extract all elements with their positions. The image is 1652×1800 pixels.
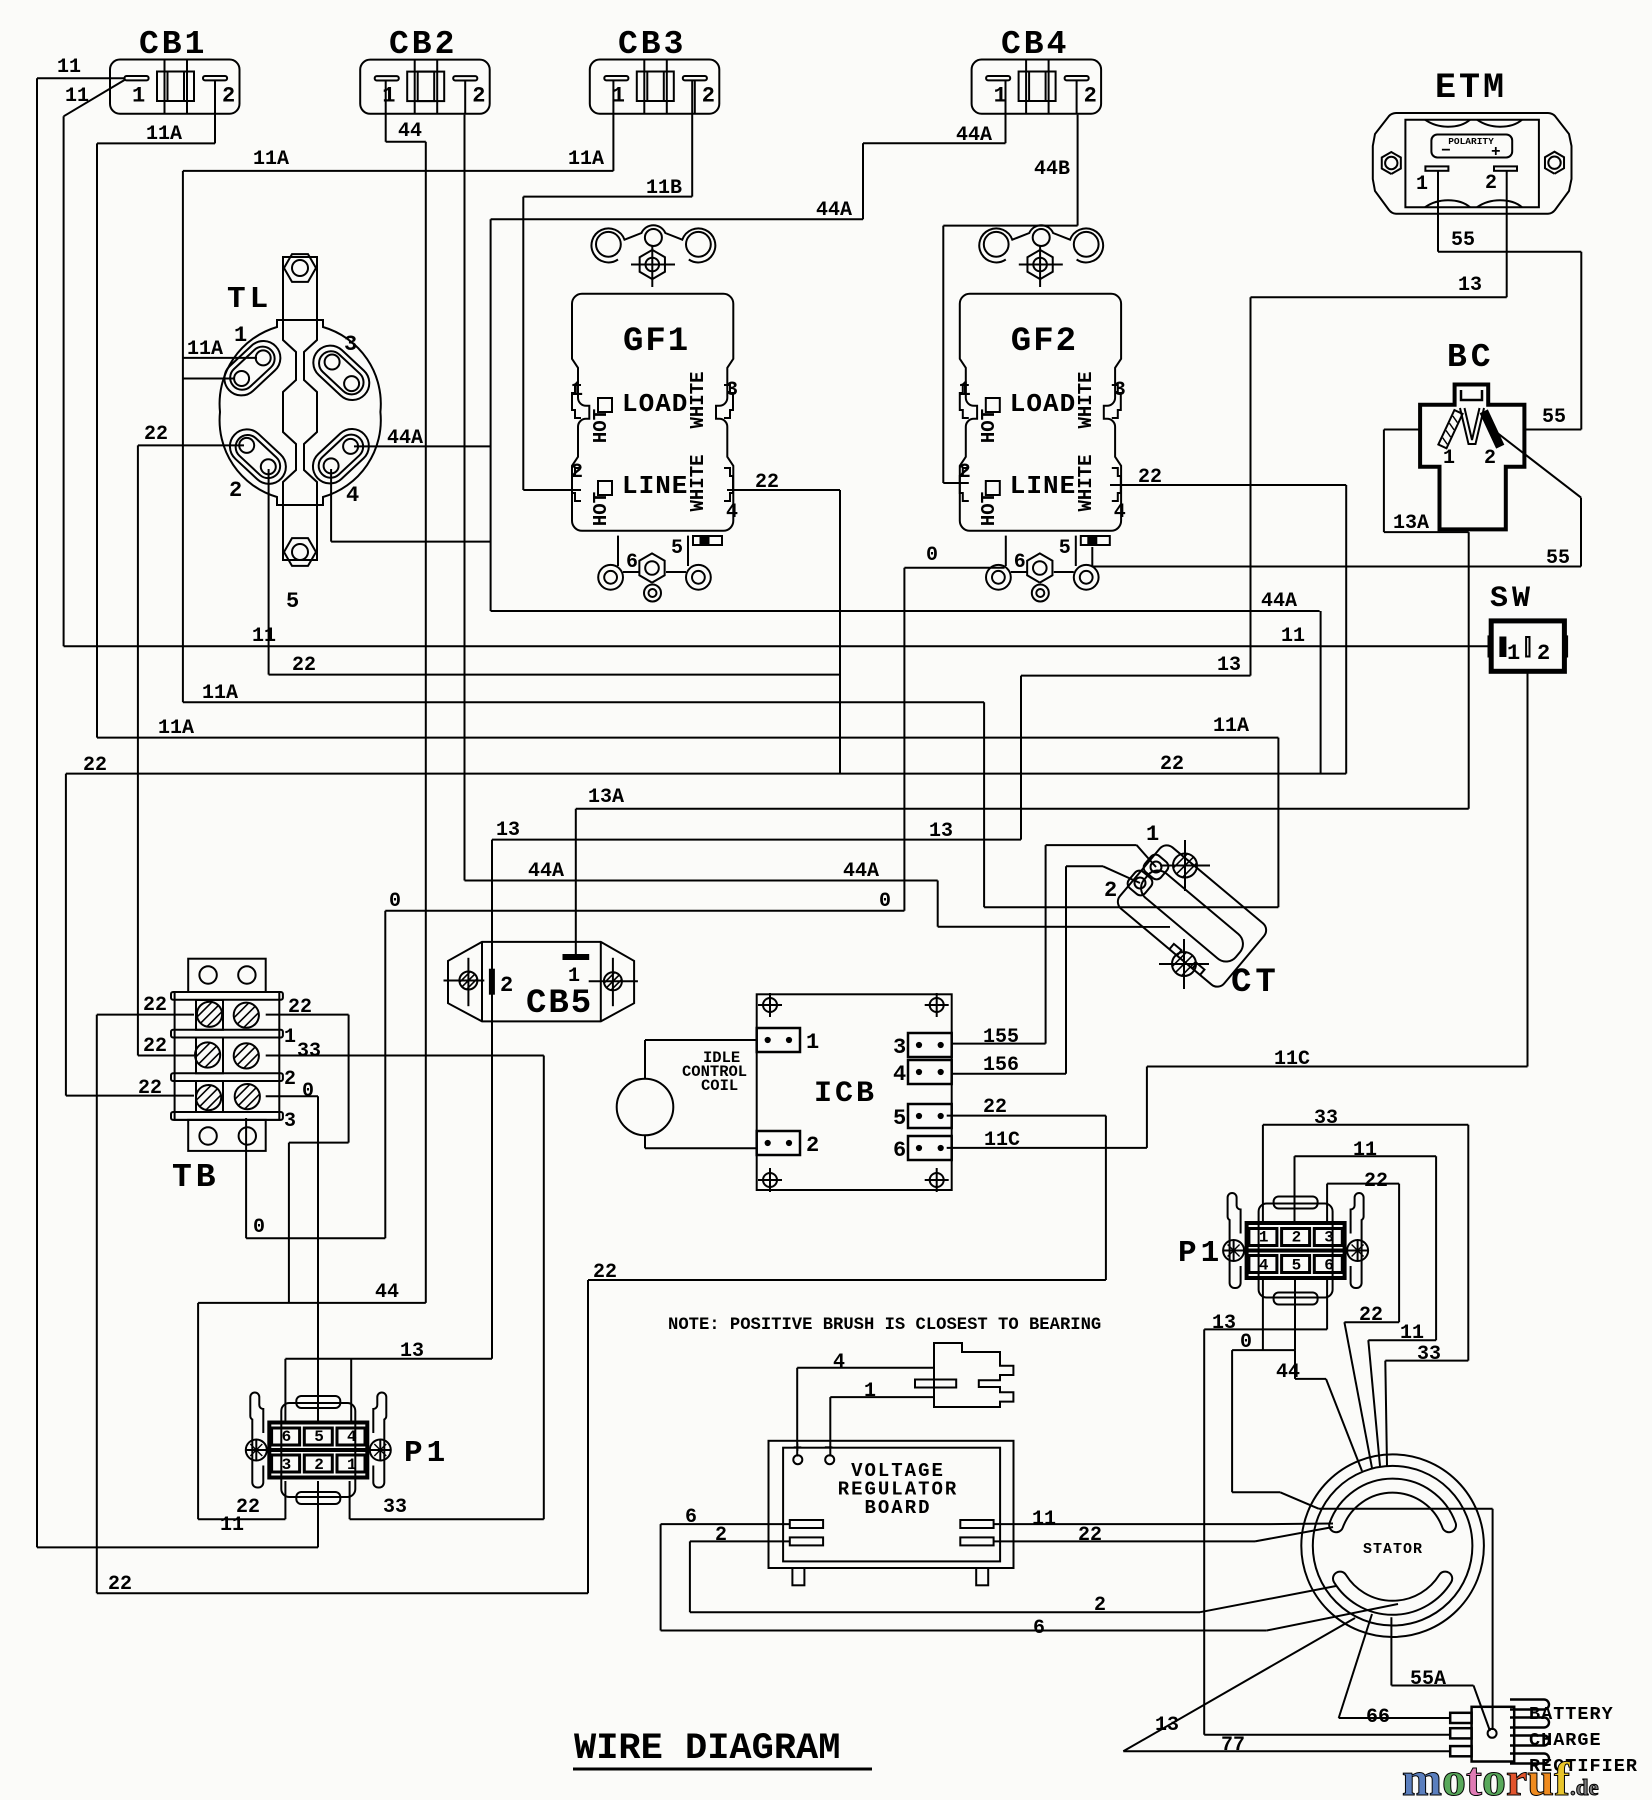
- svg-text:POLARITY: POLARITY: [1448, 136, 1494, 147]
- svg-text:2: 2: [472, 84, 485, 109]
- svg-text:WHITE: WHITE: [1075, 371, 1097, 428]
- svg-text:11C: 11C: [984, 1129, 1020, 1152]
- svg-text:13: 13: [1155, 1714, 1179, 1737]
- svg-text:22: 22: [144, 423, 168, 446]
- svg-text:CB1: CB1: [139, 26, 207, 63]
- svg-text:2: 2: [229, 478, 242, 503]
- svg-text:5: 5: [314, 1428, 324, 1446]
- svg-text:1: 1: [612, 84, 625, 109]
- svg-text:1: 1: [864, 1380, 876, 1403]
- svg-text:155: 155: [983, 1026, 1019, 1049]
- svg-text:11A: 11A: [187, 338, 223, 361]
- svg-text:44: 44: [398, 120, 422, 143]
- svg-text:13: 13: [1458, 274, 1482, 297]
- svg-text:13A: 13A: [588, 786, 624, 809]
- svg-text:11A: 11A: [146, 123, 182, 146]
- svg-text:2: 2: [571, 461, 583, 484]
- svg-text:4: 4: [346, 483, 359, 508]
- svg-text:2: 2: [702, 84, 715, 109]
- svg-text:2: 2: [1537, 641, 1550, 666]
- svg-text:22: 22: [138, 1077, 162, 1100]
- svg-text:0: 0: [389, 890, 401, 913]
- svg-text:1: 1: [382, 84, 395, 109]
- svg-text:11C: 11C: [1274, 1048, 1310, 1071]
- svg-text:STATOR: STATOR: [1363, 1541, 1423, 1558]
- svg-text:4: 4: [1114, 501, 1126, 524]
- svg-text:4: 4: [1259, 1257, 1269, 1275]
- svg-text:13A: 13A: [1393, 512, 1429, 535]
- svg-text:6: 6: [282, 1428, 292, 1446]
- svg-text:22: 22: [983, 1096, 1007, 1119]
- svg-text:LINE: LINE: [622, 471, 688, 501]
- svg-text:22: 22: [1160, 753, 1184, 776]
- svg-text:3: 3: [344, 332, 357, 357]
- svg-text:1: 1: [959, 379, 971, 402]
- svg-text:CB2: CB2: [389, 26, 457, 63]
- svg-text:5: 5: [1292, 1257, 1302, 1275]
- svg-text:6: 6: [893, 1138, 906, 1163]
- svg-text:0: 0: [879, 890, 891, 913]
- svg-text:3: 3: [893, 1035, 906, 1060]
- svg-text:44B: 44B: [1034, 158, 1070, 181]
- svg-text:13: 13: [1212, 1312, 1236, 1335]
- svg-text:11: 11: [1032, 1508, 1056, 1531]
- svg-text:LOAD: LOAD: [1010, 389, 1076, 419]
- svg-text:P1: P1: [404, 1436, 449, 1471]
- svg-text:CB5: CB5: [526, 985, 593, 1023]
- svg-text:LOAD: LOAD: [622, 389, 688, 419]
- svg-text:6: 6: [685, 1506, 697, 1529]
- svg-text:11A: 11A: [568, 148, 604, 171]
- svg-text:1: 1: [806, 1030, 819, 1055]
- svg-text:44A: 44A: [843, 860, 879, 883]
- svg-text:6: 6: [1324, 1257, 1334, 1275]
- svg-text:−: −: [824, 1440, 833, 1457]
- svg-text:22: 22: [108, 1573, 132, 1596]
- svg-text:2: 2: [1104, 878, 1117, 903]
- svg-text:2: 2: [1292, 1229, 1302, 1247]
- svg-text:WHITE: WHITE: [1075, 454, 1097, 511]
- svg-text:55: 55: [1451, 229, 1475, 252]
- svg-text:2: 2: [715, 1524, 727, 1547]
- svg-text:44A: 44A: [528, 860, 564, 883]
- svg-text:55A: 55A: [1410, 1668, 1446, 1691]
- svg-text:TL: TL: [227, 282, 272, 317]
- svg-text:GF1: GF1: [623, 323, 690, 361]
- svg-text:33: 33: [383, 1496, 407, 1519]
- svg-text:0: 0: [926, 544, 938, 567]
- svg-text:13: 13: [929, 820, 953, 843]
- svg-text:22: 22: [1138, 466, 1162, 489]
- svg-text:4: 4: [893, 1062, 906, 1087]
- svg-text:CHARGE: CHARGE: [1529, 1730, 1602, 1751]
- svg-text:2: 2: [1485, 172, 1497, 195]
- svg-text:33: 33: [1314, 1107, 1338, 1130]
- svg-text:11B: 11B: [646, 177, 682, 200]
- svg-text:55: 55: [1546, 547, 1570, 570]
- svg-text:COIL: COIL: [701, 1077, 738, 1095]
- svg-text:BC: BC: [1447, 339, 1495, 376]
- svg-text:11: 11: [65, 85, 89, 108]
- svg-text:+: +: [793, 1440, 802, 1457]
- svg-text:33: 33: [297, 1040, 321, 1063]
- svg-text:BATTERY: BATTERY: [1529, 1704, 1614, 1725]
- svg-text:44A: 44A: [816, 199, 852, 222]
- svg-text:HOT: HOT: [590, 492, 612, 526]
- svg-text:+: +: [1491, 143, 1501, 161]
- svg-text:CB4: CB4: [1001, 26, 1069, 63]
- svg-text:22: 22: [288, 996, 312, 1019]
- svg-text:22: 22: [1364, 1170, 1388, 1193]
- svg-text:3: 3: [1114, 379, 1126, 402]
- svg-text:44A: 44A: [387, 427, 423, 450]
- svg-text:CT: CT: [1231, 964, 1280, 1002]
- svg-text:11: 11: [1400, 1322, 1424, 1345]
- svg-text:11A: 11A: [202, 682, 238, 705]
- svg-text:4: 4: [726, 501, 738, 524]
- svg-text:SW: SW: [1490, 582, 1534, 616]
- svg-text:5: 5: [1059, 537, 1071, 560]
- svg-text:11A: 11A: [1213, 715, 1249, 738]
- svg-text:CB3: CB3: [618, 26, 686, 63]
- svg-text:WHITE: WHITE: [687, 371, 709, 428]
- svg-text:6: 6: [1033, 1617, 1045, 1640]
- svg-text:11: 11: [220, 1514, 244, 1537]
- svg-text:1: 1: [994, 84, 1007, 109]
- svg-text:77: 77: [1221, 1734, 1245, 1757]
- svg-text:11: 11: [57, 56, 81, 79]
- svg-text:0: 0: [1240, 1331, 1252, 1354]
- svg-text:22: 22: [755, 471, 779, 494]
- svg-text:HOT: HOT: [590, 409, 612, 443]
- svg-text:11: 11: [1353, 1139, 1377, 1162]
- svg-text:P1: P1: [1178, 1236, 1223, 1271]
- svg-text:2: 2: [314, 1456, 324, 1474]
- svg-text:TB: TB: [172, 1159, 220, 1196]
- svg-text:2: 2: [1094, 1594, 1106, 1617]
- svg-text:2: 2: [806, 1133, 819, 1158]
- svg-text:156: 156: [983, 1054, 1019, 1077]
- svg-text:motoruf.de: motoruf.de: [1402, 1753, 1599, 1800]
- svg-text:1: 1: [347, 1456, 357, 1474]
- svg-text:13: 13: [496, 819, 520, 842]
- svg-text:5: 5: [286, 589, 299, 614]
- svg-text:22: 22: [292, 654, 316, 677]
- svg-text:WHITE: WHITE: [687, 454, 709, 511]
- svg-text:4: 4: [347, 1428, 357, 1446]
- svg-text:2: 2: [1484, 447, 1496, 470]
- svg-text:44: 44: [375, 1281, 399, 1304]
- svg-text:11: 11: [252, 625, 276, 648]
- svg-text:3: 3: [284, 1110, 296, 1133]
- svg-text:6: 6: [1014, 551, 1026, 574]
- svg-text:1: 1: [1146, 822, 1159, 847]
- svg-text:1: 1: [1443, 447, 1455, 470]
- svg-text:BOARD: BOARD: [864, 1497, 931, 1519]
- svg-text:3: 3: [282, 1456, 292, 1474]
- svg-text:ETM: ETM: [1435, 68, 1507, 108]
- svg-text:NOTE: POSITIVE BRUSH IS CLOSES: NOTE: POSITIVE BRUSH IS CLOSEST TO BEARI…: [668, 1316, 1101, 1335]
- svg-text:4: 4: [833, 1351, 845, 1374]
- svg-text:33: 33: [1417, 1343, 1441, 1366]
- svg-text:11A: 11A: [253, 148, 289, 171]
- svg-text:22: 22: [1359, 1304, 1383, 1327]
- svg-text:HOT: HOT: [978, 409, 1000, 443]
- svg-text:HOT: HOT: [978, 492, 1000, 526]
- svg-text:2: 2: [222, 84, 235, 109]
- svg-text:2: 2: [500, 973, 513, 998]
- svg-text:ICB: ICB: [814, 1077, 877, 1111]
- svg-text:66: 66: [1366, 1706, 1390, 1729]
- svg-text:1: 1: [234, 323, 247, 348]
- svg-text:3: 3: [726, 379, 738, 402]
- svg-text:1: 1: [1507, 641, 1520, 666]
- svg-text:11A: 11A: [158, 717, 194, 740]
- svg-text:22: 22: [143, 1035, 167, 1058]
- svg-text:1: 1: [284, 1026, 296, 1049]
- svg-text:22: 22: [83, 754, 107, 777]
- svg-text:44A: 44A: [956, 124, 992, 147]
- svg-text:5: 5: [893, 1106, 906, 1131]
- svg-text:LINE: LINE: [1010, 471, 1076, 501]
- svg-text:2: 2: [959, 461, 971, 484]
- svg-text:1: 1: [1259, 1229, 1269, 1247]
- svg-text:1: 1: [571, 379, 583, 402]
- svg-text:5: 5: [671, 537, 683, 560]
- svg-text:13: 13: [400, 1340, 424, 1363]
- svg-text:6: 6: [626, 551, 638, 574]
- svg-text:3: 3: [1324, 1229, 1334, 1247]
- svg-text:0: 0: [302, 1080, 314, 1103]
- svg-text:44A: 44A: [1261, 590, 1297, 613]
- svg-text:1: 1: [1416, 173, 1428, 196]
- svg-text:2: 2: [284, 1068, 296, 1091]
- svg-text:11: 11: [1281, 625, 1305, 648]
- svg-text:22: 22: [143, 994, 167, 1017]
- svg-text:55: 55: [1542, 406, 1566, 429]
- svg-text:WIRE DIAGRAM: WIRE DIAGRAM: [574, 1728, 840, 1770]
- svg-text:GF2: GF2: [1011, 323, 1078, 361]
- svg-text:22: 22: [1078, 1524, 1102, 1547]
- svg-text:0: 0: [253, 1216, 265, 1239]
- svg-text:2: 2: [1084, 84, 1097, 109]
- svg-text:13: 13: [1217, 654, 1241, 677]
- svg-text:1: 1: [132, 84, 145, 109]
- svg-text:22: 22: [593, 1261, 617, 1284]
- svg-text:44: 44: [1276, 1361, 1300, 1384]
- svg-text:−: −: [1441, 142, 1451, 160]
